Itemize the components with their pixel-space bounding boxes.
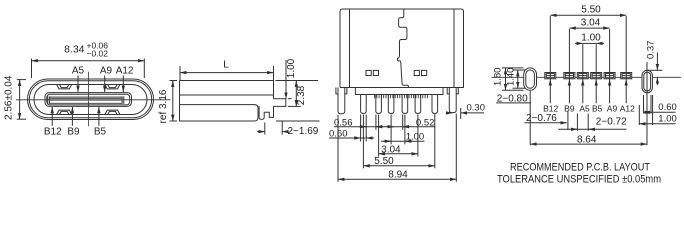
dim 2-0.76 extension [567,112,569,131]
B12 leader [51,107,53,126]
svg-text:A12: A12 [116,66,134,77]
pad B9 [564,73,575,79]
dim 0.52 arrows [387,126,394,128]
svg-text:B9: B9 [564,103,575,113]
dim 8.34 line [32,60,145,62]
leg 3 [388,95,394,114]
svg-text:2.38: 2.38 [296,85,307,105]
dim 2.56 extension lines [17,79,26,81]
svg-text:3.04: 3.04 [381,144,401,155]
leg 5 [415,95,421,114]
dim 5.50 line [550,14,626,16]
svg-text:B12: B12 [543,103,558,113]
pad A9 [604,73,615,79]
dim 1.00 line [285,60,287,99]
svg-text:5.50: 5.50 [374,156,394,167]
dim 1.80 extension lines [502,67,524,69]
dim L extension lines [179,66,181,80]
centerline vertical [88,72,90,127]
dim 0.60 line [644,111,676,113]
svg-text:A12: A12 [620,103,635,113]
dim 1.40 extension lines [513,69,526,71]
svg-text:0.37: 0.37 [646,41,657,60]
svg-text:8.34: 8.34 [64,44,85,56]
A5 leader [77,76,79,93]
svg-text:B9: B9 [67,126,80,137]
svg-text:1.80: 1.80 [493,68,504,87]
dim 0.37 arrows [656,53,658,71]
right oval pad outer [642,70,652,93]
hole pair right [414,70,419,75]
left oval pad outer [524,68,537,90]
tongue end bars [47,96,49,104]
svg-text:A5: A5 [579,103,590,113]
shell tab right [449,88,456,113]
dim 0.60 extension lines [643,95,645,114]
svg-text:B5: B5 [94,126,107,137]
bottom latch bump 1 [57,110,72,114]
dim 1.00 line [583,42,596,44]
dim 1.00 extension lines [582,44,584,79]
pad A12 [621,73,632,79]
dim 1.80 line [505,68,507,90]
leg 2 [376,95,382,114]
dim 1.40 line [517,70,519,88]
tongue outer [45,93,132,107]
svg-text:1.00: 1.00 [581,33,601,44]
dim 5.50 extension lines [549,16,551,79]
hole pair left [366,70,371,75]
leg 1 [361,95,367,114]
extension lines below legs [360,115,362,142]
extension tab bottom [288,105,301,107]
svg-text:5.50: 5.50 [581,5,601,16]
svg-text:0.52: 0.52 [416,118,435,129]
dim 1.00 right line [639,123,675,125]
left oval pad inner [526,70,535,88]
dim 0.60 line [329,137,374,139]
svg-text:ref 3.16: ref 3.16 [158,89,169,123]
dim 1.00 right extension lines [638,105,640,125]
right tab [274,99,286,107]
svg-text:1.00: 1.00 [286,58,297,78]
svg-text:−0.02: −0.02 [87,49,109,59]
leg 4 [402,95,408,114]
insulator base rail [355,88,443,95]
svg-text:0.30: 0.30 [467,103,486,114]
svg-text:A9: A9 [607,103,618,113]
bottom latch bump 2 [105,110,120,114]
B5 leader [98,107,100,126]
dim 8.64 line [530,143,647,145]
svg-text:1.40: 1.40 [506,68,517,87]
dim 2.38 line [295,81,297,107]
svg-text:L: L [223,60,229,71]
svg-text:B12: B12 [44,126,62,137]
right oval pad inner [644,72,651,91]
dim 0.37 extension [648,69,663,71]
dim L line [180,72,274,74]
leg 6 [432,95,438,114]
dim 3.04 extension lines [568,29,570,79]
dim 0.56 line [334,126,435,128]
svg-text:B5: B5 [592,103,603,113]
mounting foot and step [259,106,273,119]
top latch bump 1 [57,85,72,89]
left oval center extension [529,91,531,145]
svg-text:0.60: 0.60 [329,129,348,140]
tongue inner [47,94,130,105]
ref 3.16 dim line [172,81,174,122]
dim 1.00 line [381,140,425,142]
svg-text:A5: A5 [72,66,85,77]
left inner wall [349,9,351,88]
extension body bottom right [276,120,320,122]
svg-text:2−0.80: 2−0.80 [497,93,528,104]
svg-text:TOLERANCE UNSPECIFIED ±0.05mm: TOLERANCE UNSPECIFIED ±0.05mm [497,174,661,186]
ref 3.16 dim extension lines [170,80,178,82]
A9 leader [104,76,106,93]
cavity opening stadium [34,85,147,115]
dim 3.04 line [569,27,609,29]
pad leaders [549,79,551,103]
svg-text:2−0.72: 2−0.72 [596,116,627,127]
extension top edge right [276,80,319,82]
dim 2-0.72 line [558,128,626,130]
right oval center extension [646,62,648,145]
dim 8.34 extension lines [31,59,33,79]
svg-text:8.64: 8.64 [577,135,597,146]
dim 0.30 line [446,112,452,114]
svg-text:3.04: 3.04 [581,17,601,28]
svg-text:1.00: 1.00 [406,132,425,143]
body outline [180,81,274,122]
svg-text:0.60: 0.60 [658,102,677,113]
svg-text:RECOMMENDED P.C.B. LAYOUT: RECOMMENDED P.C.B. LAYOUT [510,162,650,174]
A12 leader [122,76,124,93]
svg-text:8.94: 8.94 [388,169,408,180]
inner line 1 [180,94,274,96]
svg-text:1.00: 1.00 [658,114,677,125]
body outline [340,9,464,88]
pad A5 [577,73,588,79]
dim 2-0.72 extension lines [576,114,578,131]
svg-text:2.56±0.04: 2.56±0.04 [4,75,15,120]
svg-text:2−1.69: 2−1.69 [288,126,319,137]
top latch bump 2 [105,85,120,89]
centerline horizontal [16,99,171,101]
pad B5 [591,73,602,79]
break line [397,9,408,88]
pad B12 [545,73,556,79]
shell second outline [29,81,151,118]
inner line 2 [180,104,256,106]
shell tab left [338,88,345,114]
tongue contact band [49,96,122,98]
dim 2.56 line [19,80,21,120]
dim 2-1.69 arrows [257,131,265,133]
dim 0.30 extension [460,108,462,119]
dim 3.04 line [379,153,418,155]
dim 2-1.69 extension lines [264,123,266,135]
B9 leader [71,107,73,126]
contact ticks [375,95,428,99]
outer shell stadium [28,79,154,120]
dim 8.94 line [338,178,456,180]
centerline horizontal [492,76,682,78]
dim 5.50 line [363,165,434,167]
svg-text:2−0.76: 2−0.76 [526,113,557,124]
dim 2-0.80 underline [496,102,531,104]
svg-text:0.56: 0.56 [334,118,353,129]
svg-text:A9: A9 [100,66,113,77]
right inner wall [453,9,455,88]
extension tab top [288,98,292,100]
dim 2-0.76 line [525,122,561,124]
